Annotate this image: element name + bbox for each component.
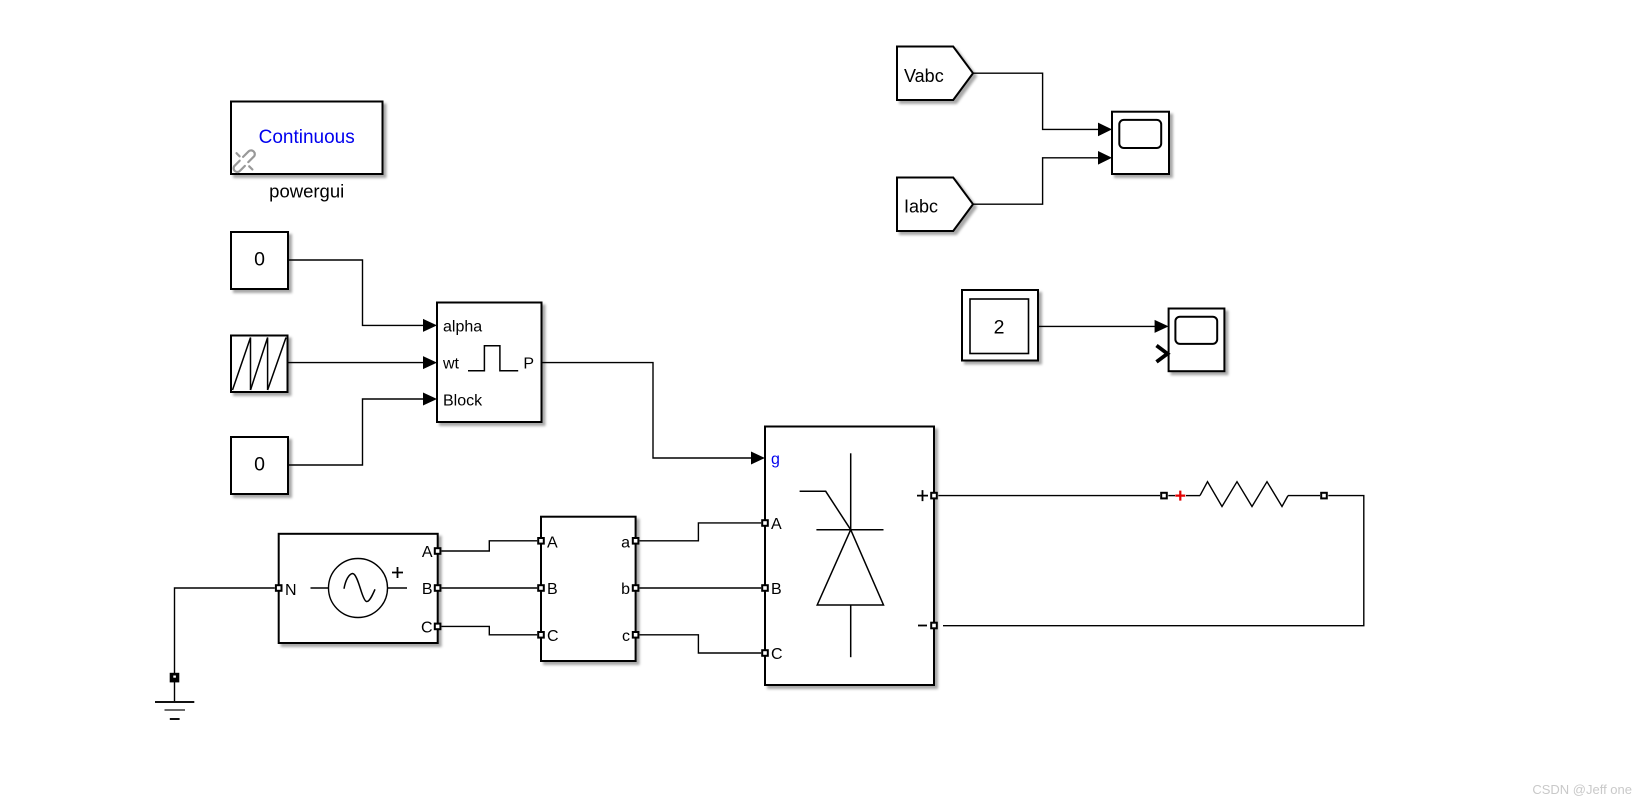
svg-text:2: 2 <box>994 317 1005 339</box>
svg-text:Block: Block <box>443 393 483 410</box>
svg-text:P: P <box>523 356 534 373</box>
svg-text:Vabc: Vabc <box>904 66 944 86</box>
svg-text:0: 0 <box>254 453 265 475</box>
svg-text:b: b <box>621 581 630 598</box>
svg-text:CSDN @Jeff one: CSDN @Jeff one <box>1532 782 1632 797</box>
svg-text:wt: wt <box>442 356 460 373</box>
svg-text:Continuous: Continuous <box>259 127 355 148</box>
svg-text:N: N <box>285 582 297 599</box>
svg-text:a: a <box>621 535 630 552</box>
svg-text:C: C <box>771 646 783 663</box>
svg-text:A: A <box>771 516 782 533</box>
svg-text:C: C <box>547 628 559 645</box>
svg-text:B: B <box>422 581 433 598</box>
svg-text:Iabc: Iabc <box>904 197 938 217</box>
svg-text:A: A <box>422 544 433 561</box>
svg-text:c: c <box>622 628 630 645</box>
svg-text:C: C <box>421 619 433 636</box>
svg-text:A: A <box>547 535 558 552</box>
svg-text:g: g <box>771 451 780 468</box>
svg-text:0: 0 <box>254 248 265 270</box>
svg-text:B: B <box>547 581 558 598</box>
svg-text:B: B <box>771 581 782 598</box>
svg-text:powergui: powergui <box>269 181 344 202</box>
svg-text:alpha: alpha <box>443 319 482 336</box>
